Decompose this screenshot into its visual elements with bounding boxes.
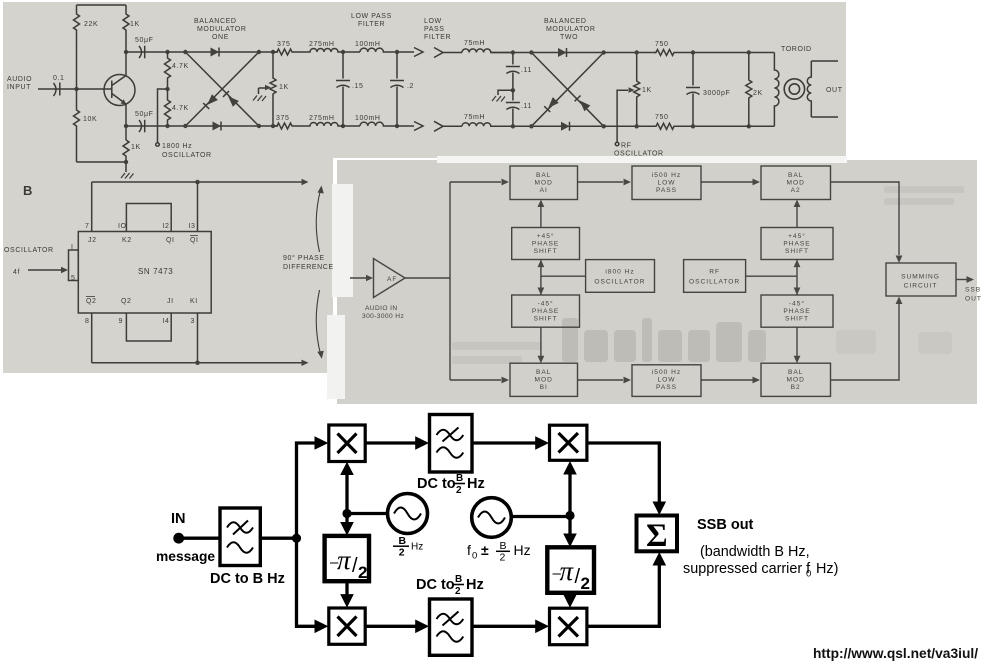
block BAL MOD A1 — [510, 166, 578, 200]
wire B1 to LP2 — [578, 379, 624, 381]
wire audio into AF — [350, 277, 369, 279]
svg-text:Σ: Σ — [646, 518, 668, 554]
svg-text:BAL: BAL — [536, 369, 551, 376]
svg-text:SHIFT: SHIFT — [534, 316, 558, 323]
svg-text:LOW: LOW — [424, 18, 442, 25]
block +45 phase shift left — [512, 228, 580, 260]
svg-text:J2: J2 — [88, 237, 97, 244]
svg-text:SHIFT: SHIFT — [785, 316, 809, 323]
arrowhead into multiplier X2b — [535, 620, 549, 634]
block BAL MOD B2 — [761, 363, 831, 396]
svg-text:I2: I2 — [163, 223, 170, 230]
wire pin13 to rail — [197, 182, 199, 232]
node pot2 top — [635, 50, 639, 54]
multiplier X2 cross — [559, 433, 579, 453]
arrowhead top rail — [302, 179, 309, 185]
resistor 750 bottom — [654, 123, 676, 129]
svg-text:8: 8 — [85, 318, 90, 325]
svg-text:AUDIO IN: AUDIO IN — [365, 305, 398, 312]
wire F2 to X2 — [472, 441, 537, 444]
svg-text:IN: IN — [171, 511, 186, 527]
svg-text:OSCILLATOR: OSCILLATOR — [689, 279, 740, 286]
node ring2 BR — [602, 124, 606, 128]
multiplier X1 box — [329, 425, 365, 462]
capacitor 50uF top — [126, 46, 168, 58]
arrowhead into X1b — [340, 594, 354, 608]
wire LP1 to A2 — [701, 181, 753, 183]
capacitor 3000pF — [686, 53, 700, 127]
resistor 1K collector — [123, 5, 129, 48]
svg-text:K2: K2 — [122, 237, 132, 244]
svg-text:i800 Hz: i800 Hz — [605, 269, 634, 276]
node pot2 bottom — [635, 124, 639, 128]
multiplier X2b cross — [559, 617, 579, 637]
wire X1 down to osc node — [345, 467, 348, 514]
block +45 phase shift right — [761, 228, 833, 260]
inductor 75mH top — [462, 49, 513, 53]
svg-text:1K: 1K — [131, 144, 141, 151]
wire secondary top — [811, 60, 838, 62]
svg-text:MOD: MOD — [787, 180, 805, 187]
block 1500Hz low pass bottom — [632, 365, 701, 397]
svg-text:.15: .15 — [352, 83, 364, 90]
diode ring1 bottom segment — [185, 125, 259, 127]
node pot bottom — [271, 124, 275, 128]
svg-text:Q2: Q2 — [86, 298, 97, 305]
svg-text:PHASE: PHASE — [532, 308, 559, 315]
node cap15 bottom — [341, 124, 345, 128]
wire top rail Q1bar output — [92, 181, 303, 183]
svg-text:FILTER: FILTER — [358, 21, 385, 28]
svg-text:LOW PASS: LOW PASS — [351, 13, 392, 20]
svg-text:OUT: OUT — [965, 296, 982, 303]
wire to output network top — [676, 52, 774, 54]
wire pin7 to top rail — [91, 182, 93, 232]
arrow LPF1 out bottom — [414, 122, 423, 131]
node ring2 BL — [529, 124, 533, 128]
arrowhead down into -45R — [794, 288, 801, 296]
wire F1 to node — [260, 537, 296, 540]
wire -45R to B2 — [796, 327, 798, 356]
wire to ring1 bottom — [168, 125, 186, 127]
svg-text:Hz: Hz — [466, 577, 484, 593]
IC pin 1-5 input box — [69, 250, 79, 281]
svg-text:JI: JI — [167, 298, 174, 305]
diode D4 on diagonal — [207, 94, 218, 105]
svg-text:http://www.qsl.net/va3iul/: http://www.qsl.net/va3iul/ — [813, 646, 978, 661]
node message junction — [292, 534, 301, 543]
arrowhead into LP2 — [624, 377, 632, 384]
svg-text:DC to B Hz: DC to B Hz — [210, 571, 285, 587]
svg-text:BI: BI — [540, 384, 548, 391]
svg-text:BALANCED: BALANCED — [544, 18, 587, 25]
arrowhead down into pi2 — [563, 534, 577, 548]
svg-text:LOW: LOW — [657, 180, 675, 187]
wire 1800Hz oscillator — [158, 89, 168, 143]
svg-text:.2: .2 — [407, 83, 414, 90]
arrowhead down into summing — [653, 502, 667, 516]
bleed-through smudge 1 — [562, 318, 766, 362]
diode ring2 top segment — [531, 52, 603, 54]
node osc2 junction — [565, 511, 574, 520]
multiplier X1b box — [329, 608, 365, 644]
pi1 label — [330, 545, 367, 582]
oscillator 1 circle — [388, 494, 428, 534]
capacitor 0.1 — [52, 83, 77, 97]
resistor 4.7K lower — [165, 89, 171, 126]
diode D1 top — [211, 48, 220, 57]
svg-text:message: message — [156, 549, 215, 564]
node ring1 BR — [257, 124, 261, 128]
wire bus to B1 — [450, 379, 501, 381]
svg-text:LOW: LOW — [657, 377, 675, 384]
svg-text:DC to: DC to — [417, 476, 456, 492]
ground pot — [253, 96, 266, 102]
svg-text:0: 0 — [472, 551, 477, 562]
pi2 label — [553, 556, 590, 593]
svg-text:AF: AF — [387, 276, 397, 283]
arrowhead SSB out — [967, 276, 975, 283]
resistor 22K — [74, 5, 80, 48]
svg-text:TWO: TWO — [560, 34, 578, 41]
wire summing output SSB — [956, 279, 970, 281]
arrow LPF2 in top — [434, 48, 443, 58]
diode D5 top — [558, 48, 567, 57]
filter F3 wave symbols — [437, 612, 464, 642]
node pin3 junction — [195, 361, 200, 366]
svg-text:5: 5 — [71, 275, 76, 282]
svg-text:PHASE: PHASE — [532, 241, 559, 248]
svg-text:PASS: PASS — [656, 187, 677, 194]
svg-text:OUT: OUT — [826, 87, 843, 94]
wire 1800 osc to column — [541, 275, 586, 277]
svg-text:0.1: 0.1 — [53, 75, 65, 82]
white strip between scan B and scan C — [332, 184, 353, 297]
svg-text:SHIFT: SHIFT — [534, 248, 558, 255]
svg-text:DIFFERENCE: DIFFERENCE — [283, 264, 334, 271]
svg-text:1K: 1K — [279, 84, 289, 91]
svg-text:4f: 4f — [13, 269, 20, 276]
diode ring1 diagonal TL-BR — [185, 52, 259, 126]
svg-text:-45°: -45° — [789, 300, 805, 308]
svg-text:MOD: MOD — [535, 180, 553, 187]
svg-text:750: 750 — [655, 41, 668, 48]
wire +45L to A1 — [540, 207, 542, 228]
resistor 375 bottom — [273, 123, 297, 129]
svg-text:RF: RF — [709, 269, 720, 276]
svg-text:375: 375 — [276, 115, 289, 122]
arrowhead up into A1 — [538, 200, 545, 208]
svg-text:BAL: BAL — [536, 172, 551, 179]
svg-text:(bandwidth B Hz,: (bandwidth B Hz, — [700, 544, 810, 560]
arrowhead 4f input — [61, 267, 68, 273]
svg-text:I3: I3 — [189, 223, 196, 230]
wire bus down — [297, 538, 317, 626]
arrowhead up into +45L — [538, 260, 545, 268]
arrowhead into LP1 — [624, 179, 632, 186]
arrow LPF2 in bottom — [434, 121, 443, 131]
wire B2 to summing — [831, 304, 900, 380]
wire LPF2 in top — [443, 52, 462, 54]
svg-text:275mH: 275mH — [309, 115, 335, 122]
inductor 75mH bottom — [462, 123, 513, 127]
svg-text:I: I — [71, 244, 74, 251]
oscillator 1 sine — [394, 508, 421, 520]
wire 1800 osc junction vertical — [540, 260, 542, 295]
svg-text:+45°: +45° — [788, 232, 806, 240]
svg-text:OSCILLATOR: OSCILLATOR — [162, 152, 212, 159]
transistor emitter arrow — [121, 99, 127, 104]
svg-text:+45°: +45° — [537, 232, 555, 240]
svg-text:BAL: BAL — [788, 369, 803, 376]
wire pin8 to bottom rail — [91, 313, 93, 363]
node cap11 mid — [511, 88, 515, 92]
wire RF oscillator — [617, 90, 628, 142]
svg-text:375: 375 — [277, 41, 290, 48]
svg-text:Hz: Hz — [467, 476, 485, 492]
arrowhead down into B1 — [538, 356, 545, 364]
svg-text:AUDIO: AUDIO — [7, 76, 32, 83]
wire ring2 to pot2 top — [604, 52, 656, 54]
svg-text:3: 3 — [191, 318, 196, 325]
node pin13 junction — [195, 180, 200, 185]
svg-text:OSCILLATOR: OSCILLATOR — [594, 279, 645, 286]
svg-text:TOROID: TOROID — [781, 46, 812, 53]
block -45 phase shift right — [761, 295, 833, 327]
wire X1 to F2 — [365, 441, 417, 444]
amplifier AF triangle — [374, 259, 406, 298]
arrowhead into B2 — [753, 377, 761, 384]
wire node down to pi1 — [345, 514, 348, 531]
lowpass filter F1 box — [220, 508, 260, 566]
svg-text:B: B — [399, 535, 407, 547]
wire pi2 down — [568, 593, 571, 603]
wire to ground mod2 — [498, 90, 513, 95]
pot wiper arrowhead — [265, 85, 271, 91]
node base bias — [74, 87, 78, 91]
svg-text:MODULATOR: MODULATOR — [197, 26, 246, 33]
diode ring2 diagonal TL-BR — [531, 53, 603, 127]
svg-text:π: π — [337, 545, 352, 575]
diode D7 on diagonal — [580, 101, 591, 112]
svg-text:PASS: PASS — [424, 26, 445, 33]
svg-text:3000pF: 3000pF — [703, 90, 730, 97]
svg-text:PHASE: PHASE — [783, 308, 810, 315]
svg-text:0: 0 — [806, 569, 811, 580]
pot wiper arm — [259, 88, 267, 94]
brace arc upper 90 degree — [316, 190, 320, 252]
node cap2 bottom — [395, 124, 399, 128]
svg-text:4.7K: 4.7K — [172, 105, 189, 112]
wire bottom rail — [77, 161, 127, 163]
scanned page background B (SN7473 area) — [3, 158, 333, 373]
svg-text:2: 2 — [455, 586, 461, 597]
svg-text:9: 9 — [119, 318, 124, 325]
diode D3 on diagonal — [228, 96, 239, 107]
potentiometer 1K carrier balance — [634, 53, 640, 127]
wire A1 to LP1 — [578, 181, 624, 183]
svg-text:MOD: MOD — [535, 377, 553, 384]
wire node down to pi2 — [568, 516, 571, 542]
block BAL MOD A2 — [761, 166, 831, 200]
arrowhead bus into X1b — [315, 620, 329, 634]
arrowhead into X2b — [563, 594, 577, 608]
arrowhead into filter F3 — [415, 620, 429, 634]
svg-text:Hz: Hz — [514, 542, 531, 558]
svg-text:1K: 1K — [130, 21, 140, 28]
wire A2 to summing — [831, 182, 900, 255]
potentiometer 1K balance — [270, 52, 276, 126]
svg-text:Hz): Hz) — [816, 561, 838, 577]
svg-text:22K: 22K — [84, 21, 98, 28]
resistor 750 top — [654, 50, 676, 56]
node 2K bottom — [747, 124, 751, 128]
multiplier X1 cross — [338, 434, 357, 454]
capacitor .2 — [390, 52, 404, 126]
wire node up to X2 — [568, 467, 571, 516]
svg-text:KI: KI — [190, 298, 198, 305]
lowpass filter F3 box — [430, 599, 473, 655]
node ring1 BL — [183, 124, 187, 128]
node ring2 TL — [529, 50, 533, 54]
transformer primary winding — [774, 53, 779, 127]
resistor 10K — [74, 89, 80, 162]
svg-text:-45°: -45° — [538, 300, 554, 308]
diode D8 on diagonal — [548, 97, 559, 108]
wire RF osc junction vertical — [796, 260, 798, 295]
wire X2 to summing corner — [587, 443, 659, 504]
wire osc2 to node — [511, 515, 570, 518]
diode D2 bottom — [213, 122, 222, 131]
wire pi1 down — [345, 581, 348, 602]
svg-text:RF: RF — [621, 143, 632, 150]
resistor 2K — [746, 53, 752, 127]
wire F3 to X2b — [472, 625, 537, 628]
svg-text:2: 2 — [500, 552, 506, 564]
svg-text:10K: 10K — [83, 116, 97, 123]
wire vertical bus — [297, 443, 317, 538]
svg-text:B: B — [23, 183, 32, 198]
svg-text:100mH: 100mH — [355, 41, 381, 48]
svg-text:SUMMING: SUMMING — [901, 274, 940, 281]
arrowhead up into summing — [896, 297, 903, 305]
svg-text:QI: QI — [190, 237, 199, 244]
wire to ring2 bottom — [491, 125, 531, 127]
brace arc lower 90 degree — [316, 290, 320, 354]
svg-text:SHIFT: SHIFT — [785, 248, 809, 255]
svg-text:.11: .11 — [521, 103, 532, 110]
arrow LPF1 out top — [414, 48, 423, 57]
svg-text:B: B — [455, 574, 462, 585]
pot2 wiper arrowhead — [629, 87, 635, 93]
wire AF to bus — [405, 277, 450, 279]
node collector tap — [124, 50, 128, 54]
node cap11 top — [511, 50, 515, 54]
multiplier X1b cross — [338, 617, 357, 637]
wire bias divider — [76, 48, 78, 89]
block 1500Hz low pass top — [632, 166, 701, 200]
svg-text:1K: 1K — [642, 87, 652, 94]
inductor 275mH bottom — [297, 123, 360, 127]
wire X1b to F3 — [365, 625, 417, 628]
arrowhead into AF — [366, 275, 373, 281]
svg-text:SN 7473: SN 7473 — [138, 267, 173, 276]
node mod1 drive top — [165, 50, 169, 54]
svg-text:f: f — [467, 542, 471, 558]
wire base — [77, 88, 112, 90]
multiplier X2b box — [550, 608, 587, 645]
node pot top — [271, 50, 275, 54]
wire to output network bottom — [676, 125, 774, 127]
capacitor .11 lower — [506, 90, 520, 126]
scanned page background C (block diagram) — [337, 160, 977, 404]
svg-text:BALANCED: BALANCED — [194, 18, 237, 25]
svg-text:50μF: 50μF — [135, 37, 154, 44]
diode ring2 diagonal BL-TR — [531, 53, 603, 127]
node 3000pF top — [691, 50, 695, 54]
svg-text:7: 7 — [85, 223, 90, 230]
svg-text:SSB out: SSB out — [697, 517, 754, 533]
wire RF osc to column — [746, 275, 797, 277]
svg-text:π: π — [560, 556, 575, 586]
terminal RF oscillator — [615, 142, 619, 146]
svg-text:B: B — [456, 473, 463, 484]
filter F2 wave symbols — [437, 428, 464, 458]
wire ring1 to pot top — [259, 51, 278, 53]
svg-text:1800 Hz: 1800 Hz — [162, 143, 192, 150]
svg-text:I4: I4 — [163, 318, 170, 325]
arrowhead up into +45R — [794, 260, 801, 268]
svg-text:B2: B2 — [791, 384, 801, 391]
diode ring1 top segment — [185, 51, 259, 53]
svg-text:2K: 2K — [753, 90, 763, 97]
wire splitter bus — [449, 182, 451, 380]
svg-text:750: 750 — [655, 114, 668, 121]
node LPF1 out top — [395, 50, 399, 54]
label f0 +- B/2 Hz (osc2) — [467, 540, 531, 564]
wire LP2 to B2 — [701, 379, 753, 381]
label DC to B/2 Hz (top) — [417, 473, 485, 496]
wire bridge K2-Q1 — [126, 204, 171, 232]
svg-text:75mH: 75mH — [464, 40, 485, 47]
node 3000pF bottom — [691, 124, 695, 128]
wire audio input — [38, 88, 52, 90]
svg-text:2: 2 — [581, 574, 590, 593]
svg-text:2: 2 — [456, 485, 462, 496]
resistor 375 top — [273, 49, 297, 55]
arrowhead into B1 — [502, 377, 510, 384]
svg-text:±: ± — [481, 542, 489, 558]
wire pin3 to rail — [197, 313, 199, 363]
svg-text:A2: A2 — [791, 187, 801, 194]
svg-text:QI: QI — [166, 237, 175, 244]
node oscillator inject — [165, 87, 169, 91]
arrowhead up into summing — [653, 552, 667, 566]
wire bridge Q2-J1 — [126, 313, 171, 341]
block 1800Hz oscillator — [586, 260, 655, 293]
arrowhead into multiplier X2 — [535, 436, 549, 450]
wire ring2 to pot2 bottom — [604, 125, 656, 127]
label DC to B/2 Hz (bottom) — [416, 574, 484, 597]
capacitor 50uF bottom — [126, 120, 168, 132]
node ring1 TR — [257, 50, 261, 54]
inductor 100mH bottom — [360, 122, 414, 126]
label bandwidth note line2 — [683, 561, 838, 580]
svg-text:i500 Hz: i500 Hz — [652, 172, 681, 179]
ground mod2 — [492, 96, 505, 102]
svg-text:50μF: 50μF — [135, 111, 154, 118]
svg-text:suppressed carrier f: suppressed carrier f — [683, 561, 811, 577]
